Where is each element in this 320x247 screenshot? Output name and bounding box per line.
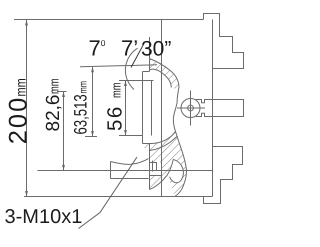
rim front vertical bottom [149,144,151,190]
chuck body bottom edge with 200mm bottom extension line [24,196,213,198]
M10 hole broken-out section top wavy edge [111,159,149,165]
arrow 200 top [25,20,28,26]
wavy break line big S-curve [173,87,186,196]
cam vertical centerline [190,91,192,126]
svg-text:3-M10x1: 3-M10x1 [5,206,83,228]
82,6mm dimension line [63,92,65,171]
hatch: top section band [150,59,180,91]
svg-text:56: 56 [103,105,126,131]
section inner top edge short [143,71,150,73]
bobbin left edge [110,162,112,179]
arrow 56 top [124,81,127,87]
svg-text:82,6: 82,6 [43,95,64,132]
short face vertical right of rim [152,161,154,172]
svg-text:30”: 30” [141,38,171,61]
hatch: sliver left of rim [143,144,150,151]
svg-text:mm: mm [78,81,90,94]
lower band boundary of bottom band [150,136,178,151]
svg-text:7’: 7’ [121,36,138,61]
63,513mm dimension line [92,67,94,137]
rim front vertical with extension up through 30 text [149,37,151,72]
svg-text:63,513: 63,513 [71,94,91,134]
arrow 56 bottom [124,130,127,136]
hatch: bottom section zone [149,132,186,190]
cam circle [181,99,200,118]
arrow 82,6 top [62,92,65,98]
section inner bottom edge with fillet to break [143,132,176,144]
bottom jaw stepped outline [204,147,243,204]
cam inner circle [188,105,194,111]
arrow 82,6 bottom [62,165,65,171]
boss arc outline [149,159,173,189]
svg-text:mm: mm [47,78,62,94]
inner band boundary with fillet [150,69,172,87]
screw hole loop curve [170,159,184,182]
chuck body top edge with 200mm top extension line [14,19,204,21]
bore bottom edge + 56 bottom extension [119,135,143,137]
arrowheads [25,20,127,197]
3-M10x1 leader line [79,157,138,229]
hole end box [150,163,157,171]
arrow 63,513 top [91,67,94,73]
lower face line right of rim [150,175,162,177]
section outer top edge sloping with fillet [150,59,180,88]
recess face vertical [142,72,144,144]
svg-text:200: 200 [5,96,33,145]
chuck body left edge [161,20,163,197]
svg-text:mm: mm [109,82,124,98]
56mm dimension line [125,81,127,136]
cam horizontal centerline [177,107,205,109]
angle leader slash [131,44,144,68]
arrow 63,513 bottom [91,131,94,137]
bobbin bottom edge [111,178,149,180]
chuck body right edge front face [212,20,214,197]
63,513mm bottom tick [85,136,97,138]
M10 hole centerline long [38,170,213,172]
hatch: bottom right crescent [167,169,186,197]
bore end face vertical [151,81,153,136]
svg-text:mm: mm [13,78,29,96]
angle leg reference line [80,65,157,67]
82,6mm top tick [57,91,67,93]
arrow 200 bottom [25,191,28,197]
200mm dimension line [26,20,28,197]
bore top edge + 56 top extension [119,80,154,82]
top jaw stepped outline [204,14,244,69]
angle dimension arc [125,48,137,89]
cam lock tab outline [196,100,244,117]
